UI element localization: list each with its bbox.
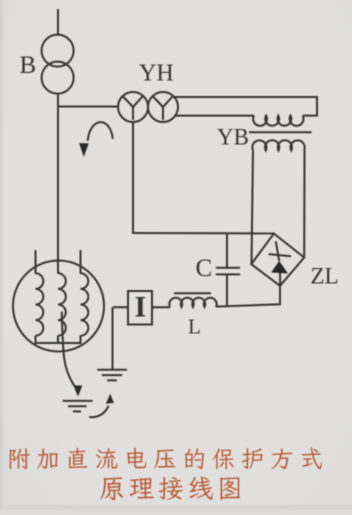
svg-text:C: C bbox=[196, 255, 213, 282]
svg-text:B: B bbox=[20, 52, 37, 79]
svg-text:I: I bbox=[135, 291, 147, 324]
svg-text:YH: YH bbox=[139, 61, 174, 87]
svg-text:ZL: ZL bbox=[311, 264, 339, 289]
svg-text:YB: YB bbox=[217, 125, 249, 150]
svg-text:L: L bbox=[188, 315, 201, 339]
